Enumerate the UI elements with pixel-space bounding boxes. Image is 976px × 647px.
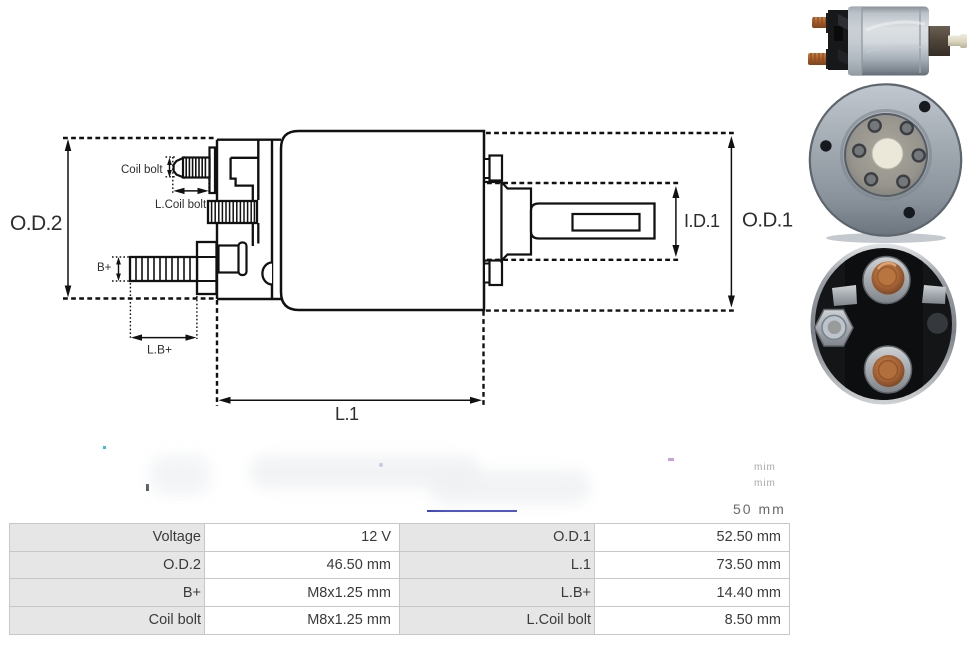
svg-text:O.D.2: O.D.2 bbox=[10, 212, 62, 235]
svg-text:I.D.1: I.D.1 bbox=[684, 211, 720, 231]
svg-text:O.D.1: O.D.1 bbox=[742, 209, 793, 232]
svg-text:L.Coil bolt: L.Coil bolt bbox=[155, 199, 207, 211]
svg-text:L.1: L.1 bbox=[335, 404, 359, 424]
svg-text:B+: B+ bbox=[97, 262, 112, 274]
svg-text:Coil bolt: Coil bolt bbox=[121, 164, 163, 176]
svg-text:L.B+: L.B+ bbox=[147, 343, 172, 357]
